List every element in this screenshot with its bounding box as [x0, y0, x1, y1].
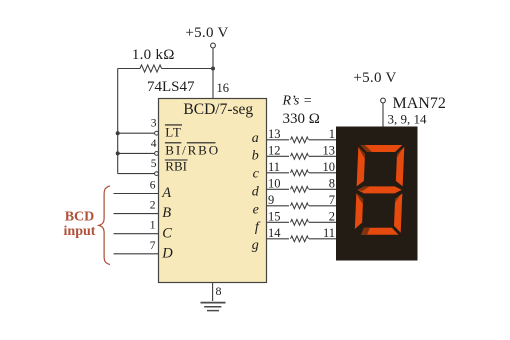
svg-text:10: 10 — [268, 176, 281, 190]
svg-text:R’s =: R’s = — [282, 93, 313, 108]
svg-text:b: b — [252, 149, 259, 164]
svg-text:9: 9 — [268, 193, 274, 207]
svg-text:16: 16 — [217, 81, 230, 95]
svg-text:2: 2 — [329, 210, 335, 224]
svg-text:3, 9, 14: 3, 9, 14 — [388, 112, 428, 127]
svg-text:2: 2 — [150, 200, 156, 212]
svg-text:11: 11 — [268, 160, 280, 174]
svg-text:BCD/7-seg: BCD/7-seg — [183, 101, 253, 118]
svg-text:74LS47: 74LS47 — [147, 79, 195, 95]
svg-text:13: 13 — [323, 144, 336, 158]
svg-text:1.0 kΩ: 1.0 kΩ — [132, 47, 175, 63]
svg-text:10: 10 — [323, 160, 336, 174]
svg-text:15: 15 — [268, 209, 281, 223]
svg-text:7: 7 — [329, 193, 335, 207]
svg-text:BI/RBO: BI/RBO — [165, 142, 220, 157]
svg-text:+5.0 V: +5.0 V — [353, 70, 396, 86]
svg-text:5: 5 — [151, 158, 157, 170]
svg-text:BCD: BCD — [65, 210, 95, 225]
svg-text:a: a — [252, 131, 259, 146]
svg-text:A: A — [161, 185, 171, 201]
svg-text:13: 13 — [268, 127, 281, 141]
svg-text:c: c — [253, 167, 260, 182]
svg-text:d: d — [252, 185, 260, 200]
svg-text:330 Ω: 330 Ω — [283, 111, 320, 127]
svg-text:RBI: RBI — [165, 159, 187, 174]
svg-text:7: 7 — [150, 240, 156, 252]
svg-text:8: 8 — [216, 284, 222, 298]
svg-text:input: input — [64, 224, 96, 239]
svg-text:4: 4 — [151, 138, 157, 150]
svg-text:B: B — [162, 205, 171, 221]
svg-text:LT: LT — [165, 124, 181, 139]
svg-text:8: 8 — [329, 177, 335, 191]
svg-text:g: g — [252, 238, 259, 253]
svg-text:3: 3 — [151, 118, 157, 130]
svg-text:D: D — [161, 245, 173, 261]
svg-text:+5.0 V: +5.0 V — [185, 25, 228, 41]
svg-text:12: 12 — [268, 143, 281, 157]
svg-text:e: e — [253, 202, 259, 217]
svg-text:C: C — [162, 225, 172, 241]
svg-text:MAN72: MAN72 — [393, 95, 446, 112]
svg-text:6: 6 — [150, 180, 156, 192]
svg-text:1: 1 — [329, 127, 335, 141]
svg-text:11: 11 — [323, 226, 335, 240]
svg-text:14: 14 — [268, 226, 281, 240]
svg-text:1: 1 — [150, 220, 156, 232]
